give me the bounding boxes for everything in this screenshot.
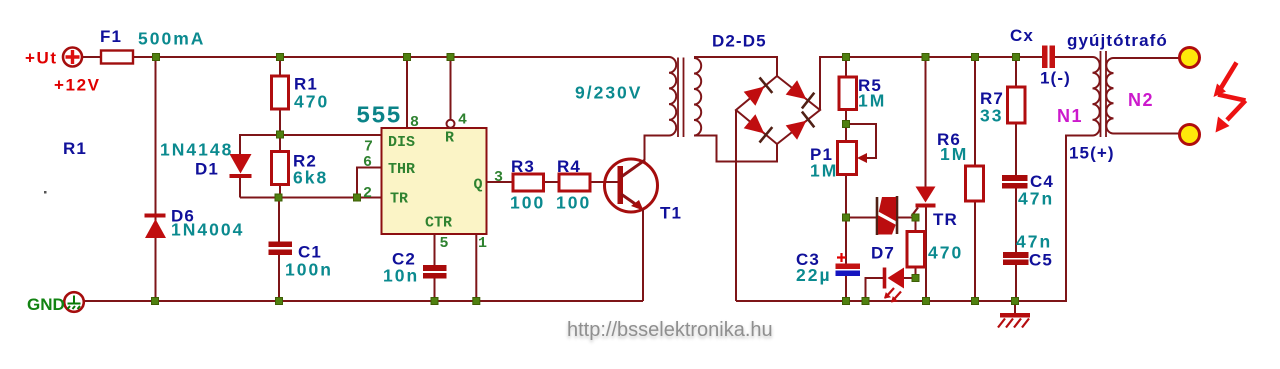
- wire 555 pin5 to C2: [434, 234, 436, 301]
- wire R5 branch: [845, 57, 847, 264]
- ignition secondary N2 winding: [1106, 58, 1113, 134]
- spark symbol: [1218, 63, 1246, 121]
- bridge diode bottom-right D5: [786, 112, 815, 140]
- svg-text:100n: 100n: [285, 260, 333, 280]
- resistor R4: [559, 174, 590, 191]
- wire C3 bottom: [845, 276, 847, 301]
- svg-text:47n: 47n: [1016, 232, 1052, 252]
- earth ground: [1014, 301, 1016, 313]
- svg-text:1M: 1M: [810, 161, 838, 181]
- svg-text:R3: R3: [511, 157, 535, 176]
- svg-text:7: 7: [364, 139, 373, 156]
- junction R5 branch rail: [843, 54, 850, 61]
- diode D6: [145, 214, 166, 218]
- thyristor TR: [925, 57, 927, 187]
- wire top +12V rail: [83, 56, 669, 58]
- resistor R2: [272, 152, 289, 185]
- svg-text:D2-D5: D2-D5: [712, 32, 767, 51]
- svg-text:TR: TR: [933, 210, 958, 229]
- transistor Q T1: [605, 159, 658, 212]
- speck: [44, 191, 47, 194]
- junction P1-C3-diac node: [843, 214, 850, 221]
- wire bottom ground rail left segment: [85, 300, 644, 302]
- terminal bottom spark output: [1180, 125, 1200, 145]
- ignition core: [1101, 51, 1107, 137]
- wire gate resistor net: [915, 218, 917, 279]
- wire R1 branch vertical: [279, 57, 281, 198]
- junction C3 ground rail: [843, 298, 850, 305]
- svg-text:D7: D7: [871, 244, 895, 263]
- svg-text:8: 8: [410, 114, 419, 131]
- svg-text:+Ut: +Ut: [25, 49, 58, 68]
- svg-text:C5: C5: [1029, 251, 1053, 270]
- diode D1: [230, 154, 252, 174]
- wire secondary bottom to bridge: [694, 136, 777, 162]
- svg-text:10n: 10n: [383, 266, 419, 286]
- svg-text:N2: N2: [1128, 90, 1154, 110]
- svg-text:+12V: +12V: [54, 76, 101, 95]
- junction C1 ground rail: [276, 298, 283, 305]
- svg-text:22µ: 22µ: [796, 265, 832, 285]
- resistor R6: [966, 166, 984, 201]
- capacitor C3 plus: [837, 253, 846, 262]
- junction 470-D7 node: [912, 275, 919, 282]
- resistor R7: [1008, 87, 1026, 123]
- svg-text:GND: GND: [27, 295, 65, 314]
- wire TR net horizontal: [240, 197, 382, 199]
- capacitor C5: [1003, 252, 1029, 258]
- svg-text:gyújtótrafó: gyújtótrafó: [1067, 31, 1168, 50]
- junction C2 ground rail: [431, 298, 438, 305]
- fuse F1: [101, 51, 133, 64]
- capacitor C4: [1002, 175, 1028, 181]
- transformer core: [678, 58, 684, 138]
- junction D6 ground rail: [152, 298, 159, 305]
- resistor 470: [907, 232, 925, 268]
- wire C1 branch: [278, 198, 280, 302]
- resistor R1: [272, 76, 289, 109]
- resistor R5: [839, 77, 857, 110]
- ignition primary N1 winding: [1093, 57, 1100, 135]
- terminal +Ut: [63, 48, 82, 67]
- svg-text:DIS: DIS: [388, 134, 415, 151]
- svg-text:470: 470: [294, 92, 329, 112]
- bridge diode bottom-left D4: [744, 114, 773, 142]
- wire TR gate: [912, 208, 919, 217]
- wire 555 pin8: [406, 57, 408, 128]
- bridge DC- down: [735, 110, 737, 301]
- wire bottom rail right segment: [736, 136, 1093, 302]
- svg-text:1(-): 1(-): [1040, 69, 1071, 88]
- junction R6 ground rail: [972, 298, 979, 305]
- junction R6 branch rail: [972, 54, 979, 61]
- wire R7 branch: [1015, 57, 1017, 301]
- svg-text:CTR: CTR: [425, 215, 452, 232]
- svg-text:http://bsselektronika.hu: http://bsselektronika.hu: [567, 319, 773, 341]
- svg-text:555: 555: [356, 104, 402, 131]
- junction 555 pin8 rail: [404, 54, 411, 61]
- junction 555 pin1 ground rail: [473, 298, 480, 305]
- svg-text:1M: 1M: [940, 144, 968, 164]
- svg-text:100: 100: [510, 193, 545, 213]
- 555 pin4 bubble: [447, 120, 455, 128]
- wire D1 branch: [240, 135, 280, 198]
- capacitor C1: [269, 242, 293, 248]
- svg-text:R1: R1: [63, 139, 87, 158]
- wire left vertical from fuse junction down to GND rail: [155, 57, 157, 301]
- junction D7 ground rail: [862, 298, 869, 305]
- svg-text:9/230V: 9/230V: [575, 83, 642, 103]
- capacitor C2: [423, 265, 447, 271]
- svg-text:47n: 47n: [1018, 189, 1054, 209]
- wire T1 collector up: [645, 136, 670, 161]
- junction R1-R2-DIS node: [277, 131, 284, 138]
- junction C5 ground rail: [1012, 298, 1019, 305]
- op-amp U1 555 body: [382, 128, 487, 234]
- svg-text:1N4004: 1N4004: [171, 220, 244, 240]
- diac D7a: [877, 196, 897, 235]
- junction TR cathode ground rail: [923, 298, 930, 305]
- wire T1 emitter down: [642, 209, 644, 301]
- svg-text:33: 33: [980, 106, 1003, 126]
- junction R5-P1 node: [843, 121, 850, 128]
- led D7: [866, 278, 918, 301]
- bridge diode top-right D3: [786, 80, 815, 108]
- junction R1 branch top: [277, 54, 284, 61]
- svg-text:R4: R4: [557, 157, 581, 176]
- wire R6 branch: [974, 57, 976, 301]
- svg-text:4: 4: [458, 112, 467, 129]
- junction R7 branch rail: [1013, 54, 1020, 61]
- svg-text:15(+): 15(+): [1069, 144, 1115, 163]
- bridge DC+ up: [820, 57, 1042, 110]
- svg-text:TR: TR: [390, 191, 408, 208]
- svg-text:100: 100: [556, 193, 591, 213]
- wire Q output: [487, 181, 619, 183]
- junction THR-TR node: [354, 194, 361, 201]
- wire Cx to ignition primary: [1055, 56, 1093, 58]
- svg-text:THR: THR: [388, 161, 415, 178]
- bridge rectifier diamond: [736, 76, 820, 144]
- wire P1 wiper: [846, 124, 876, 158]
- wire N2 to terminals: [1114, 58, 1180, 134]
- junction 555 pin4 rail: [447, 54, 454, 61]
- terminal GND: [64, 292, 84, 312]
- svg-text:1: 1: [478, 235, 487, 252]
- transformer primary winding: [669, 57, 676, 135]
- svg-text:6: 6: [363, 154, 372, 171]
- svg-text:1M: 1M: [858, 91, 886, 111]
- svg-text:1N4148: 1N4148: [160, 140, 233, 160]
- terminal top spark output: [1180, 48, 1200, 68]
- junction TR anode rail: [922, 54, 929, 61]
- svg-text:F1: F1: [100, 27, 122, 46]
- svg-text:D1: D1: [195, 160, 219, 179]
- junction fuse output node: [153, 54, 160, 61]
- svg-text:5: 5: [440, 235, 449, 252]
- wire DIS net to 555: [280, 134, 382, 136]
- svg-text:Cx: Cx: [1010, 26, 1034, 45]
- wire 555 pin4: [450, 57, 452, 120]
- capacitor Cx: [1042, 46, 1048, 69]
- svg-text:T1: T1: [660, 204, 682, 223]
- svg-text:2: 2: [363, 185, 372, 202]
- svg-text:Q: Q: [474, 177, 483, 194]
- transformer secondary winding: [694, 58, 701, 136]
- resistor R3: [513, 174, 544, 191]
- bridge diode top-left D2: [744, 78, 773, 106]
- capacitor C3: [836, 264, 861, 270]
- wire secondary top to bridge: [694, 57, 777, 76]
- svg-text:N1: N1: [1057, 106, 1083, 126]
- svg-text:500mA: 500mA: [138, 29, 205, 49]
- svg-text:3: 3: [494, 169, 503, 186]
- potentiometer P1: [838, 142, 857, 175]
- wire diac net: [846, 217, 915, 219]
- svg-text:470: 470: [928, 243, 963, 263]
- svg-text:6k8: 6k8: [293, 168, 328, 188]
- wire 555 pin1 to rail: [475, 234, 477, 301]
- wire THR stub: [357, 168, 382, 198]
- junction R2-TR-C1 node: [275, 194, 282, 201]
- junction diac-gate node: [912, 214, 919, 221]
- svg-text:R: R: [445, 130, 454, 147]
